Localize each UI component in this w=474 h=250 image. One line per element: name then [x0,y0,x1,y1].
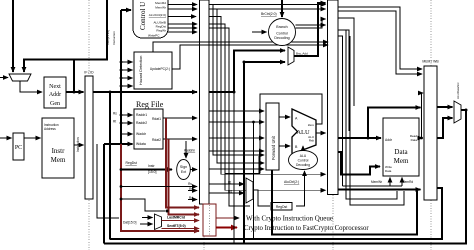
bold wire branch operand to mux [244,61,285,63]
pipeline dotted rail MEM/WB [430,0,432,250]
wire forward to alu B [279,145,290,147]
svg-text:WritePC: WritePC [148,34,160,38]
maroon instr bus lower [121,144,199,231]
wire zero loop [260,94,322,174]
svg-text:Branch: Branch [276,25,287,29]
wire into control unit [121,9,131,11]
wires instruction to regfile read ports [113,112,133,135]
wire next addr gen output to IF/ID [66,91,84,93]
bold bottom rail B [110,188,442,239]
bold wire x110 down to rail [109,91,112,240]
svg-text:Addr: Addr [49,92,61,98]
svg-text:Waddr: Waddr [136,132,147,136]
bold wire pc4 out of idex up to branch adder [209,51,285,93]
mux writeback [454,101,461,123]
pipeline register IF/ID [84,71,94,200]
wire ALUSelB control [168,23,197,25]
node instruction bus junction [120,91,123,94]
svg-text:Rt: Rt [113,120,116,124]
box forward unit [266,103,279,170]
wire u-loop under data mem 2 [350,36,404,205]
svg-text:Rdat2: Rdat2 [152,138,161,142]
maroon crypto bus vertical 1 [166,118,199,208]
wire exmem nested 2 [338,11,422,74]
wire IF/ID instruction bold bus [93,91,197,93]
svg-text:Raddr2: Raddr2 [136,121,147,125]
svg-text:Zero: Zero [308,123,315,127]
wire instr 15 0 to sign ext [121,92,172,170]
svg-text:MemWr: MemWr [371,180,383,184]
node forward input junctions [243,121,255,140]
svg-text:Address: Address [44,127,56,131]
bold vertical to rail B [253,122,255,239]
svg-text:Rslt: Rslt [309,139,314,143]
sign extend ellipse [177,160,191,180]
svg-text:Next: Next [49,84,61,90]
svg-text:Bra_Add: Bra_Add [296,52,308,56]
legend arrow with crypto queue [216,215,333,223]
pipeline register ID/EX [200,0,210,204]
svg-text:Data: Data [394,148,408,156]
svg-text:Decoding: Decoding [274,36,289,40]
wire left loop x97 [97,144,119,218]
bold wire wb mux out to right rail [461,109,468,112]
svg-text:Instr: Instr [148,164,155,168]
control lines crossing idex to ex stage verticals [209,5,320,207]
pipeline dotted rail EX/MEM [332,0,334,250]
crypto instruction queue register maroon [203,204,216,236]
wire read data up to memwb [419,93,423,139]
node pc loop junction [73,91,76,94]
bold wire result up over mem [368,108,421,139]
wire mux output to next addr gen [20,81,42,92]
svg-text:ALU: ALU [296,129,310,136]
wire memwb readdata loop to wb mux input2 [437,118,453,138]
wire exmem to data mem addr [338,30,349,131]
svg-text:Data: Data [385,169,392,173]
box hazard detection [134,52,172,89]
wire writeback vertical [103,144,105,244]
node addr junction [367,137,370,140]
mux dest register [246,178,253,203]
svg-text:BrCtrl(2:0): BrCtrl(2:0) [261,12,277,16]
label RegDst wire box [271,203,292,211]
bold bottom rail A [272,170,417,235]
wire updatepc out of hazard [172,45,328,69]
pipeline register MEM/WB [422,60,439,201]
wire rdat1 to idex [163,117,197,119]
svg-text:Gen: Gen [50,101,60,107]
box next addr gen [44,77,66,108]
svg-text:IF / ID: IF / ID [84,71,94,75]
svg-text:Control: Control [276,32,288,36]
maroon wire LastMRCrd [162,216,200,221]
svg-text:SextET(5:0): SextET(5:0) [167,224,186,228]
wire dest mux out [253,190,270,206]
wire branch decoding to exmem [296,19,326,28]
svg-text:MemRd: MemRd [155,1,166,5]
wire pc mux input from left edge [0,77,8,79]
maroon wire SextET [162,224,200,229]
wire alu result to exmem [316,132,326,134]
svg-text:Dat[15:0]: Dat[15:0] [123,221,136,225]
svg-text:[15:0]: [15:0] [148,170,157,174]
label Dat 15 0 [122,217,142,225]
wire mem control horizontal [343,185,403,187]
wire ALUCtrl control [168,16,196,18]
svg-text:Crypto Instruction to FastCryp: Crypto Instruction to FastCrypto Coproce… [244,225,369,232]
svg-text:Reg File: Reg File [136,100,164,109]
wire into crypto mux top [140,217,153,219]
svg-text:Mem: Mem [51,156,66,164]
svg-text:UpdatePC(2:): UpdatePC(2:) [150,67,170,71]
wires instruction to hazard detection [120,61,133,88]
wire writeback data into Wdata [104,143,133,145]
wire into branch decoding left [252,31,267,33]
svg-text:RegDst: RegDst [126,161,137,165]
label instr 15 0 [148,164,157,174]
svg-text:AluCtrl(2:): AluCtrl(2:) [284,180,299,184]
wire rs field to idex [121,182,197,187]
wire rdat2 to idex [163,138,197,140]
wire kaddr down into sign ext [185,141,187,158]
wire into PC [0,137,12,139]
svg-text:Raddr1: Raddr1 [136,113,147,117]
mux pc source [9,74,31,81]
svg-text:PC: PC [15,145,22,151]
wire instruction bus vertical [120,10,122,170]
box reg file [134,109,163,149]
svg-text:Hazard Detection: Hazard Detection [139,56,143,85]
svg-text:Mem: Mem [394,157,409,165]
svg-text:Forward Unit: Forward Unit [271,135,276,160]
wires idex to forward unit [209,111,264,169]
wire MemWr control [168,8,197,10]
box instr mem [42,118,74,178]
wire hazard top to EX/MEM [153,42,328,52]
box control unit [133,0,168,38]
node branch operand junction [243,61,246,64]
box data mem [383,118,419,176]
mux crypto select [155,214,162,230]
wire instr mem out [74,144,84,146]
wire field to crypto bus junction [121,199,165,211]
svg-text:MemRd: MemRd [402,180,413,184]
pipeline register EX/MEM [328,0,339,195]
wire RegDst control [168,27,197,29]
svg-text:Instruction: Instruction [112,31,116,45]
arrowheads for control continuations [258,155,326,190]
wires exmem top nested to memwb [338,7,422,69]
wire brctrl down into branch decoding [281,0,283,17]
wire PC to instr mem [24,137,41,139]
wire branch decoding to exmem 2 [296,24,326,26]
box PC [13,133,24,160]
wire feedback into pc mux top left [12,0,14,72]
wire alu control to alu [302,146,304,150]
svg-text:MemWr: MemWr [155,6,166,10]
wire dat to crypto mux [140,223,153,225]
wire forward to alu A [279,116,290,118]
wire memwr control to exmem [209,8,326,10]
svg-text:With Crypto Instruction Queue: With Crypto Instruction Queue [246,215,333,223]
svg-text:Data: Data [411,138,418,142]
svg-text:Instr[31:26]: Instr[31:26] [106,30,110,45]
wire memwr up into data mem [389,178,391,187]
svg-text:LastMRCrd: LastMRCrd [167,216,185,220]
wire memwb to wb mux input1 [437,106,453,108]
svg-text:Control: Control [298,159,309,163]
wire memrd long [338,189,421,191]
svg-text:Ext: Ext [181,170,186,174]
svg-text:Wdata: Wdata [136,142,146,146]
wire regdst up into alu control [296,171,305,206]
svg-text:ALU: ALU [300,154,307,158]
svg-text:ALUDataSrc: ALUDataSrc [456,82,460,99]
bold wire branch addr to exmem [294,3,326,56]
wire RegWr control [168,31,197,33]
wire u-loop under data mem 1 [346,30,397,199]
ellipse branch control decoding [269,19,296,46]
bold bottom rail C [104,110,466,244]
svg-text:Rs: Rs [113,112,117,116]
wire sign ext to idex [191,169,198,171]
wire exmem down to data mem top [338,18,354,106]
mux branch address [288,47,294,65]
ALU shape [292,109,316,154]
svg-text:Sign: Sign [180,165,187,169]
wire MemRd control [168,4,197,6]
bold wire branch operand down [243,62,245,244]
svg-text:Rdat1: Rdat1 [152,117,161,121]
wires rt rd to dest mux [188,181,244,201]
svg-text:ALUCtrl(2:0): ALUCtrl(2:0) [149,13,166,17]
svg-text:MEM / WB: MEM / WB [422,60,439,64]
bold wire alusel corner [225,156,259,174]
svg-text:RegDst: RegDst [276,205,287,209]
svg-text:Addr: Addr [385,138,393,142]
pipeline dotted rail IF/ID [88,0,90,250]
svg-text:Control U: Control U [139,2,147,30]
node maroon taps [120,168,169,212]
svg-text:Decoding: Decoding [296,163,310,167]
bold wire alu result to addr [338,137,381,139]
wire memrd control to exmem [209,4,326,6]
ellipse alu control decoding [289,151,318,170]
pipeline dotted rail ID/EX [203,0,205,250]
maroon crypto bus vertical 2 [169,139,199,215]
svg-text:Instr: Instr [52,147,66,155]
legend arrow crypto to fastcrypto [216,225,369,232]
bold wire write data into mem [338,152,380,175]
wire pc loop horizontal top [24,0,107,72]
svg-text:Rs: Rs [188,182,192,186]
svg-text:RegWr: RegWr [156,29,166,33]
wire memrd up into data mem [401,178,403,187]
